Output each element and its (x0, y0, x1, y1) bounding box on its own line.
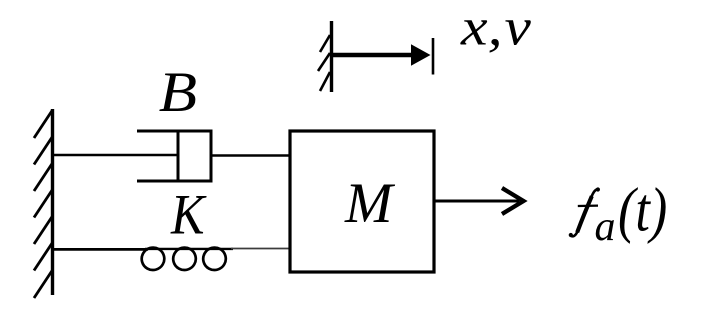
mass M (290, 131, 434, 272)
label f_a(t) (569, 187, 600, 237)
svg-text:a: a (595, 204, 616, 250)
f top hook (591, 189, 597, 197)
f stem (577, 196, 592, 232)
wire: wall to spring (53, 248, 149, 251)
wire: spring to mass (231, 248, 290, 250)
svg-text:K: K (170, 183, 207, 247)
damper B (dashpot cylinder) (137, 131, 213, 181)
wire: wall to damper piston rod (53, 154, 179, 157)
wall hatching (34, 110, 53, 298)
svg-text:v: v (505, 0, 531, 57)
f top ball (596, 187, 600, 191)
f descender hook (570, 231, 577, 236)
svg-text:(t): (t) (618, 176, 667, 244)
wire: damper to mass (211, 154, 290, 157)
svg-text:B: B (159, 61, 197, 124)
displacement arrow x,v (332, 44, 431, 65)
fixed wall (left) (51, 109, 54, 295)
reference frame wall (top) (330, 21, 333, 92)
f bottom ball (569, 233, 573, 237)
reference wall hatching (318, 35, 330, 91)
spring K coils (139, 245, 233, 272)
svg-text:M: M (344, 172, 396, 235)
force arrow f_a(t) (434, 188, 524, 214)
f crossbar (578, 204, 598, 207)
svg-text:x,: x, (460, 0, 503, 57)
reference tick at mass (432, 38, 435, 75)
damper piston plate (177, 130, 180, 182)
